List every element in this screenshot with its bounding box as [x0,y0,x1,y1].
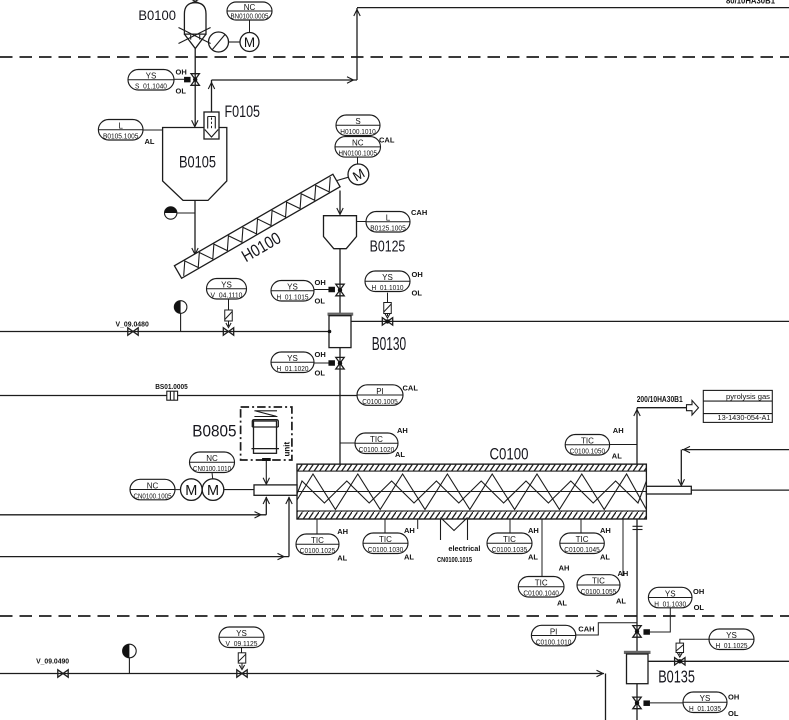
svg-text:V_09.1125: V_09.1125 [226,639,258,648]
svg-text:C0100.1030: C0100.1030 [368,545,404,554]
svg-text:L: L [386,214,391,223]
filter F0105 [204,112,219,139]
instrument bubble YS S_01.1040 [128,70,174,91]
svg-text:80/10HA30B1: 80/10HA30B1 [726,0,775,6]
hose coupling BS01.0005 [167,391,178,400]
svg-text:TIC: TIC [370,435,383,444]
svg-text:AL: AL [600,553,610,562]
svg-text:B0805: B0805 [192,422,236,441]
svg-text:BN0100.0005: BN0100.0005 [231,12,269,21]
svg-text:AL: AL [404,553,414,562]
vessel B0130 [328,313,354,348]
svg-text:OL: OL [315,369,326,378]
svg-text:F0105: F0105 [225,102,261,121]
svg-text:OL: OL [412,289,423,298]
svg-text:OH: OH [728,693,739,702]
wire feed line V_09.0480 to B0130 [0,331,329,333]
svg-text:AH: AH [600,526,611,535]
svg-text:B0130: B0130 [372,334,406,354]
svg-text:CN0100.1015: CN0100.1015 [437,555,472,564]
valve V_09.1125 [237,648,247,678]
wire B0125 to B0130 [339,249,341,313]
svg-text:13-1430-054-A1: 13-1430-054-A1 [718,413,771,422]
slide symbol in B0805 [254,411,277,417]
sight glass on B0100 discharge [209,32,229,52]
svg-text:HN0100.1005: HN0100.1005 [339,149,378,158]
junction at B0130 inlet [328,330,332,334]
wire feed line 4 [0,497,292,560]
dosing vessel in B0805 [252,420,280,454]
instrument bubble YS V_09.1125 [219,627,264,648]
svg-text:PI: PI [550,627,558,636]
wire TIC C0100.1040 tap [541,519,543,577]
svg-text:V_09.0480: V_09.0480 [116,319,149,328]
instrument bubble TIC C0100.1055 [577,575,620,596]
svg-text:AL: AL [145,137,155,146]
svg-text:H_01.1030: H_01.1030 [654,599,686,608]
wire vent horizontal run [212,77,358,83]
svg-text:PI: PI [376,387,384,396]
wire bubble to motor [211,473,214,479]
svg-text:CAH: CAH [578,625,594,634]
svg-text:AL: AL [616,597,626,606]
svg-text:NC: NC [206,454,218,463]
wire TIC tap [610,444,637,446]
stub tap [417,519,419,529]
wire bubble to B0105 [143,129,163,131]
instrument bubble YS H_01.1020 [271,352,314,373]
svg-text:AL: AL [528,553,538,562]
wire B0130 outlet to right edge [351,320,789,322]
svg-text:AH: AH [404,526,415,535]
svg-text:H_01.1015: H_01.1015 [277,293,309,302]
sample point on feed line [174,301,187,332]
svg-text:unit: unit [283,442,292,457]
package unit boundary B0805 [241,407,292,460]
svg-text:OH: OH [176,68,187,77]
wire vent header to 80/10HA30B1 [357,0,789,8]
wire TIC C0100.1045 tap [580,519,582,533]
svg-text:TIC: TIC [379,535,392,544]
hopper B0105 [163,128,227,255]
svg-text:YS: YS [700,694,711,703]
svg-text:AH: AH [559,563,570,572]
svg-text:H_01.1020: H_01.1020 [277,364,309,373]
valve S_01.1040 [174,74,199,86]
instrument bubble S H0100.1010 [336,115,380,136]
svg-text:CAH: CAH [411,208,427,217]
svg-text:TIC: TIC [311,536,324,545]
flange break symbol [633,526,643,529]
svg-text:CAL: CAL [403,383,419,392]
svg-text:C0100.1035: C0100.1035 [492,545,528,554]
valve V_09.0480 [128,328,138,335]
wire motor to reactor nozzle [224,489,254,491]
instrument bubble TIC C0100.1040 [518,577,564,598]
screw conveyor H0100 [174,174,340,278]
motor M1 of C0100 [181,479,203,501]
wire PI tap [576,623,637,635]
wire bubble to motor [357,157,359,164]
wire vent riser to header [354,8,360,80]
svg-text:V_04.1110: V_04.1110 [211,291,243,300]
svg-text:L: L [118,122,123,131]
svg-text:NC: NC [352,139,364,148]
svg-text:AH: AH [528,526,539,535]
svg-text:NC: NC [147,481,159,490]
reactor C0100 shell [297,464,646,519]
wire recycle entry from right [678,446,789,485]
valve H_01.1020 [313,357,344,369]
instrument bubble YS H_01.1030 [648,587,692,608]
svg-text:YS: YS [287,354,298,363]
svg-text:CN0100.1010: CN0100.1010 [193,464,231,473]
off-page connector arrow [687,400,699,415]
sample point on bottom line [123,644,137,673]
svg-text:OH: OH [693,587,704,596]
vessel B0100 [179,3,211,49]
instrument bubble NC CN0100.1010 [190,452,235,473]
svg-text:NC: NC [244,3,256,12]
svg-text:C0100.1010: C0100.1010 [536,637,572,646]
valve V_09.0490 [58,670,68,677]
svg-text:TIC: TIC [576,535,589,544]
valve V_04.1110 [223,299,233,335]
svg-text:YS: YS [726,631,737,640]
motor M of B0100 [240,33,259,52]
wire bubble to B0125 [357,221,367,223]
wire F0105 vent riser [208,80,214,112]
svg-text:AL: AL [395,450,405,459]
valve H_01.1035 [633,697,683,709]
wire pyrolysis gas offtake [634,408,687,464]
electrical heater connection [441,518,468,541]
motor M of H0100 [348,164,369,185]
wire purge line BS01.0005 [0,395,357,397]
svg-text:M: M [207,483,219,499]
wire TIC C0100.1025 tap [316,519,318,534]
svg-text:OL: OL [176,87,187,96]
instrument bubble TIC C0100.1020 [355,433,398,454]
wire sight glass to motor [229,41,241,43]
motor M2 of C0100 [202,479,224,501]
svg-text:H_01.1025: H_01.1025 [716,641,748,650]
wire B0100 discharge to B0105 [192,49,198,127]
svg-text:S_01.1040: S_01.1040 [135,82,167,91]
hopper B0125 [324,216,357,249]
svg-text:C0100.1005: C0100.1005 [362,397,398,406]
screw flights in C0100 [297,474,646,510]
svg-text:M: M [185,483,197,499]
svg-text:YS: YS [221,281,232,290]
instrument bubble L B0125.1005 [366,212,410,233]
connector B0805 to feed nozzle [262,458,271,484]
svg-text:AL: AL [337,554,347,563]
wire TIC C0100.1035 tap [509,519,511,533]
valve H_01.1025 [675,639,709,665]
svg-text:TIC: TIC [592,577,605,586]
instrument bubble NC CN0100.1005 [130,479,175,500]
instrument bubble NC BN0100.0005 [227,2,272,21]
svg-text:AL: AL [612,452,622,461]
svg-text:B0125: B0125 [370,238,406,255]
wire C0100 char discharge to B0135 [636,519,638,651]
instrument bubble PI C0100.1010 [531,625,575,646]
svg-text:C0100.1025: C0100.1025 [300,546,336,555]
svg-text:YS: YS [382,273,393,282]
wire bubble to motor [175,489,181,491]
svg-text:C0100: C0100 [490,445,529,464]
svg-text:BS01.0005: BS01.0005 [155,382,188,391]
svg-text:H_01.1010: H_01.1010 [372,283,404,292]
instrument bubble YS H_01.1035 [683,692,727,713]
wire B0135 bottoms [636,684,638,720]
battery limit dashed line (top) [0,56,789,58]
svg-text:YS: YS [665,589,676,598]
wire TIC C0100.1030 tap [384,519,386,533]
svg-text:CAL: CAL [379,136,395,145]
instrument bubble YS H_01.1025 [709,629,754,650]
instrument bubble L B0105.1005 [98,120,143,141]
instrument bubble TIC C0100.1050 [565,435,609,456]
off-page reference box pyrolysis gas [703,390,772,422]
instrument bubble NC HN0100.1005 [335,137,381,158]
wire conveyor discharge to B0125 [337,191,343,215]
svg-text:OH: OH [315,350,326,359]
instrument bubble YS H_01.1015 [271,281,314,302]
svg-text:pyrolysis gas: pyrolysis gas [726,392,770,401]
svg-text:C0100.1045: C0100.1045 [564,545,600,554]
svg-text:YS: YS [287,283,298,292]
wire bottom feed line [0,670,606,720]
wire TIC tap [340,442,355,444]
svg-text:C0100.1055: C0100.1055 [581,587,617,596]
wire outlet to right edge [691,489,789,491]
wire feed line 3 [0,497,270,518]
svg-text:C0100.1050: C0100.1050 [570,447,606,456]
instrument bubble YS V_04.1110 [207,279,247,300]
svg-text:OL: OL [728,709,739,718]
wire TIC C0100.1055 tap [622,519,624,576]
wire B0135 outlet right [648,660,789,662]
valve H_01.1010 [382,293,392,326]
svg-text:AH: AH [397,426,408,435]
vessel B0135 [624,651,651,684]
svg-text:200/10HA30B1: 200/10HA30B1 [637,395,683,404]
sample point at B0105 outlet [165,207,196,219]
svg-text:AH: AH [613,426,624,435]
instrument bubble TIC C0100.1025 [296,534,339,555]
instrument bubble PI C0100.1005 [357,385,403,406]
svg-text:OL: OL [315,297,326,306]
outlet nozzle of C0100 [646,486,691,494]
svg-text:OL: OL [694,603,705,612]
svg-text:B0100: B0100 [138,8,176,23]
valve H_01.1030 [633,608,671,638]
svg-text:YS: YS [236,629,247,638]
svg-text:B0135: B0135 [658,666,695,686]
svg-text:C0100.1040: C0100.1040 [523,589,559,598]
svg-text:TIC: TIC [503,535,516,544]
svg-text:H0100.1010: H0100.1010 [340,127,376,136]
instrument bubble TIC C0100.1045 [560,533,605,554]
svg-text:S: S [355,117,360,126]
svg-text:AH: AH [337,527,348,536]
svg-text:electrical: electrical [448,544,480,553]
svg-text:AL: AL [557,599,567,608]
wire bubble to motor [249,20,251,33]
instrument bubble YS H_01.1010 [365,271,410,292]
svg-text:B0105.1005: B0105.1005 [103,132,139,141]
svg-text:OH: OH [315,278,326,287]
svg-text:B0125.1005: B0125.1005 [370,224,406,233]
valve on B0100 top nozzle (clipped) [191,0,200,3]
battery limit dashed line (bottom) [0,615,789,617]
svg-text:TIC: TIC [535,579,548,588]
instrument bubble TIC C0100.1035 [487,533,532,554]
svg-text:H_01.1035: H_01.1035 [689,704,721,713]
svg-text:OH: OH [412,270,423,279]
svg-text:CN0100.1005: CN0100.1005 [134,491,172,500]
wire conveyor to motor [337,177,349,180]
svg-text:M: M [244,35,255,50]
svg-text:C0100.1020: C0100.1020 [359,445,395,454]
svg-text:B0105: B0105 [179,153,216,172]
svg-text:TIC: TIC [581,437,594,446]
wire B0130 to reactor C0100 [339,348,341,465]
inlet nozzle of C0100 [254,485,297,495]
svg-text:YS: YS [146,72,157,81]
svg-text:V_09.0490: V_09.0490 [36,656,69,665]
valve H_01.1015 [313,284,344,296]
svg-text:AH: AH [618,569,629,578]
instrument bubble TIC C0100.1030 [363,533,408,554]
